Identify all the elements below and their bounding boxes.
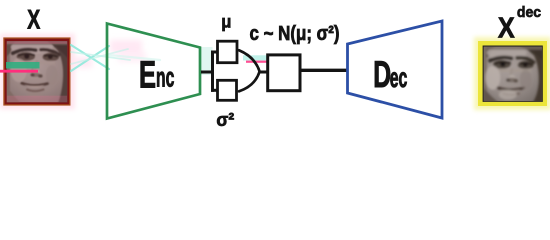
svg-text:nc: nc — [156, 60, 174, 92]
svg-text:X: X — [498, 12, 515, 44]
svg-text:E: E — [139, 53, 156, 95]
svg-text:X: X — [27, 4, 40, 34]
svg-text:dec: dec — [517, 5, 541, 21]
svg-text:c ~ N(μ; σ²): c ~ N(μ; σ²) — [250, 22, 340, 45]
svg-text:σ²: σ² — [216, 110, 234, 129]
svg-text:μ: μ — [221, 11, 231, 32]
svg-text:D: D — [373, 53, 391, 95]
svg-text:ec: ec — [390, 62, 408, 93]
